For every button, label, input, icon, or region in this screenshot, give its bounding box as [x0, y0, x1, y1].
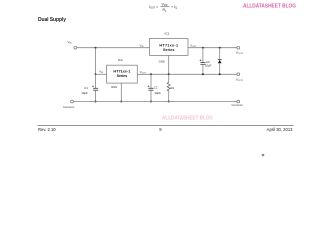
- svg-text:Series: Series: [163, 48, 175, 52]
- wire D1 anode down to Vout2 rail: [219, 63, 221, 74]
- junction top rail / C3: [202, 47, 204, 49]
- junction top rail to IC2 branch: [95, 47, 97, 49]
- svg-text:R1: R1: [163, 8, 168, 13]
- wire to IC2 VIN pin: [96, 73, 107, 75]
- wire R1 bottom to common rail: [168, 91, 170, 102]
- wire C1 branch down: [95, 74, 97, 88]
- capacitor C3 10uF: [200, 60, 212, 68]
- svg-text:+ IQ: + IQ: [171, 5, 177, 10]
- wire IC1 VOUT to Vout1 terminal (top rail right): [188, 47, 237, 49]
- junction C1 / common rail: [95, 101, 97, 103]
- capacitor C2 10uF: [148, 85, 162, 94]
- svg-text:Common: Common: [63, 105, 75, 109]
- svg-text:Dual Supply: Dual Supply: [38, 17, 66, 23]
- wire C3 top: [202, 48, 204, 62]
- wire IC2 VOUT to Vout2 terminal (middle rail): [137, 73, 237, 75]
- regulator IC1 HT71xx-1 Series: [150, 32, 189, 56]
- svg-text:R1: R1: [171, 86, 175, 90]
- wire C1 bottom to common rail: [95, 90, 97, 101]
- node Vout2: output terminal: [237, 73, 240, 76]
- node Common: left terminal: [71, 100, 74, 103]
- capacitor C1 10uF: [81, 85, 98, 94]
- wire IC1 GND pin down to Vout2 rail: [168, 55, 170, 74]
- svg-text:IOUT =: IOUT =: [149, 5, 158, 10]
- svg-text:April 30, 2013: April 30, 2013: [267, 127, 294, 132]
- svg-text:IC2: IC2: [118, 58, 123, 62]
- wire C3 bottom to Vout2 rail: [202, 64, 204, 74]
- junction Vout2 rail / C2: [150, 73, 152, 75]
- svg-text:ALLDATASHEET BLOG: ALLDATASHEET BLOG: [162, 116, 213, 122]
- junction Vout2 rail / C3: [202, 73, 204, 75]
- junction IC2 VIN / C1: [95, 73, 97, 75]
- wire D1 cathode up to Vout1 rail: [219, 48, 221, 60]
- diode D1 (cathode up): [218, 59, 222, 63]
- svg-text:Rev. 2.10: Rev. 2.10: [38, 127, 56, 132]
- wire C2 bottom to common rail: [150, 90, 152, 101]
- junction C2 / common rail: [150, 101, 152, 103]
- node Vin: input terminal: [74, 46, 77, 49]
- svg-text:10µF: 10µF: [205, 64, 212, 68]
- wire Vin terminal to IC1 VIN pin (top rail left): [77, 47, 150, 49]
- regulator IC2 HT71xx-1 Series: [107, 58, 138, 83]
- svg-text:HT71xx-1: HT71xx-1: [113, 69, 130, 73]
- footer rule: [38, 125, 294, 127]
- wire R1 top: [168, 74, 170, 82]
- wire C2 top: [150, 74, 152, 88]
- svg-text:C2: C2: [154, 86, 158, 90]
- node Common: right terminal: [237, 100, 240, 103]
- junction IC2 GND / common rail: [120, 101, 122, 103]
- junction Vout2 rail / R1 and IC1 GND: [168, 73, 170, 75]
- wire common rail: [73, 101, 237, 103]
- speck: [262, 154, 265, 157]
- resistor R1: [167, 82, 174, 91]
- node Vout1: output terminal: [237, 46, 240, 49]
- wire IC2 GND pin to common rail: [120, 83, 122, 101]
- svg-text:Common: Common: [232, 103, 244, 107]
- svg-text:C1: C1: [84, 86, 88, 90]
- svg-text:HT71xx-1: HT71xx-1: [159, 43, 178, 47]
- svg-text:GND: GND: [111, 85, 117, 89]
- svg-text:IC1: IC1: [165, 32, 170, 36]
- svg-text:VOR: VOR: [162, 3, 168, 8]
- junction top rail / D1: [219, 47, 221, 49]
- wire branch down to IC2 VIN level: [95, 48, 97, 75]
- svg-text:ALLDATASHEET BLOG: ALLDATASHEET BLOG: [243, 4, 296, 10]
- junction R1 / common rail: [168, 101, 170, 103]
- formula Iout = Vout/R1 + Iq: [149, 3, 177, 13]
- svg-text:10µF: 10µF: [154, 91, 161, 95]
- junction Vout2 rail / D1: [219, 73, 221, 75]
- svg-text:GND: GND: [159, 59, 165, 63]
- svg-text:10µF: 10µF: [81, 91, 88, 95]
- svg-text:Series: Series: [117, 74, 127, 78]
